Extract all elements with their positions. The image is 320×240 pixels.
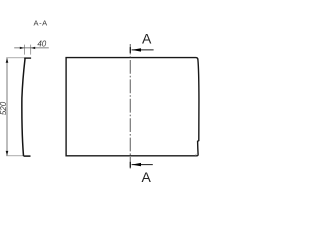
svg-text:520: 520 [0, 101, 8, 115]
dimension 40 arrow left (pointing right) [20, 47, 25, 49]
dimension 520 extension line bottom [6, 155, 23, 157]
dimension 40 arrow right (pointing left) [31, 47, 35, 49]
section arrow top [132, 49, 154, 51]
panel section profile A-A: top flange [24, 57, 31, 59]
dimension 520 extension line top [6, 57, 24, 59]
dimension 520 arrow up [6, 58, 9, 63]
dimension 40 line [14, 47, 49, 49]
dimension 40 extension line left [23, 45, 25, 55]
section arrow bottom [132, 164, 153, 166]
panel section profile A-A: bottom foot [24, 155, 31, 157]
svg-text:A-A: A-A [34, 18, 48, 27]
panel section profile A-A: face (curved sheet) [22, 58, 25, 156]
dimension 520 line [6, 58, 8, 155]
svg-text:40: 40 [37, 39, 46, 48]
section cut centerline (dash-dot) [129, 44, 131, 169]
section cut tick bottom [129, 162, 131, 168]
panel front view outline [66, 58, 199, 156]
svg-text:A: A [142, 30, 152, 46]
inner corner fillet bottom-right [195, 154, 197, 155]
dimension 520 arrow down [6, 151, 9, 156]
svg-text:A: A [142, 169, 152, 185]
dimension 40 extension line right [30, 45, 32, 55]
section cut tick top [129, 47, 131, 53]
